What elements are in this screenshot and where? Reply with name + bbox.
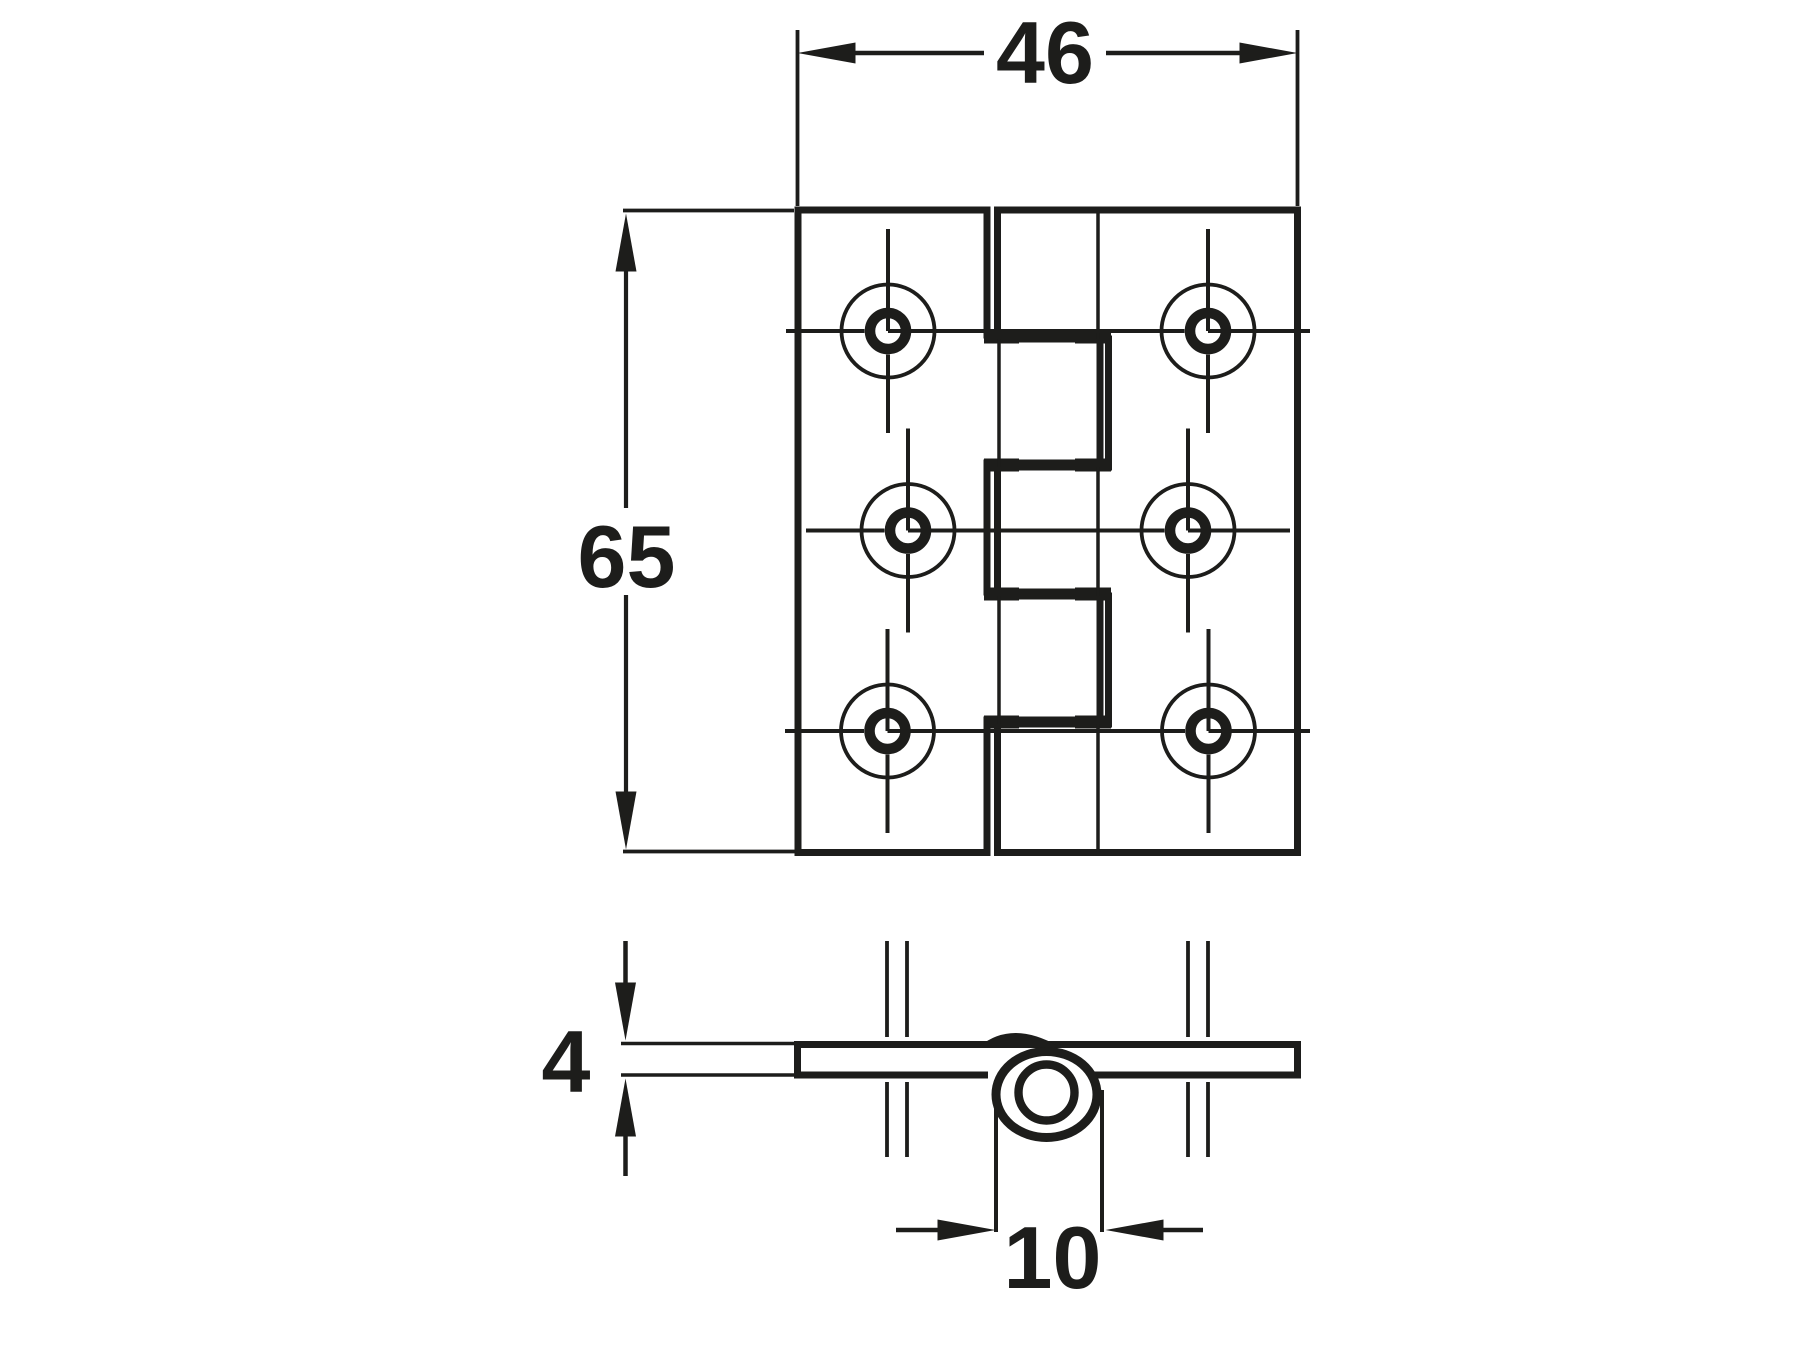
- svg-text:10: 10: [1004, 1208, 1102, 1307]
- dimension 46 extension lines: [798, 30, 1298, 206]
- dimension 4 lower arrow: [623, 1135, 628, 1176]
- dimension 65 extension lines: [623, 211, 795, 852]
- svg-text:46: 46: [996, 3, 1094, 102]
- dimension 65 line: [624, 270, 628, 793]
- left leaf outline: [798, 210, 1100, 853]
- screw hole H6 bottom-right: [1162, 629, 1255, 833]
- screw hole H5 bottom-left: [841, 629, 934, 833]
- side view pin hole: [1019, 1065, 1075, 1121]
- screw hole H1 top-left: [842, 229, 935, 433]
- dimension 46 right arrowhead: [1240, 43, 1298, 64]
- side view hidden screw lines lower: [887, 1082, 1208, 1157]
- centerline row 3: [785, 729, 1310, 733]
- dimension 65 top arrowhead: [616, 214, 637, 272]
- svg-text:4: 4: [542, 1012, 591, 1111]
- screw hole H2 top-right: [1162, 229, 1255, 433]
- centerline row 1: [786, 329, 1310, 333]
- dimension 46 line: [854, 51, 1241, 56]
- knuckle joint 3 end caps: [984, 588, 1111, 601]
- dimension 10 right arrow: [1163, 1228, 1203, 1233]
- knuckle joint 2 end caps: [984, 459, 1111, 472]
- side view curl top transition bulge: [980, 1033, 1058, 1046]
- knuckle joint 1 end caps: [984, 331, 1111, 344]
- side view knuckle outer curl: [996, 1052, 1097, 1138]
- dimension 10 left arrow: [896, 1228, 939, 1233]
- dimension 46 left arrowhead: [798, 43, 856, 64]
- knuckle curl seam lines: [999, 211, 1098, 853]
- screw hole H3 middle-left: [862, 429, 955, 633]
- side view plate outline: [798, 1045, 1298, 1076]
- dimension 4 upper arrow: [623, 941, 628, 984]
- dimension 65 bottom arrowhead: [616, 792, 637, 850]
- side view hidden screw lines upper: [887, 941, 1208, 1037]
- dimension 10 extension lines: [996, 1080, 1102, 1232]
- svg-text:65: 65: [578, 507, 676, 606]
- centerline row 2: [806, 529, 1290, 533]
- dimension 4 extension lines: [621, 1044, 797, 1076]
- knuckle joint 4 end caps: [984, 716, 1111, 729]
- screw hole H4 middle-right: [1142, 429, 1235, 633]
- right leaf outline: [998, 210, 1298, 853]
